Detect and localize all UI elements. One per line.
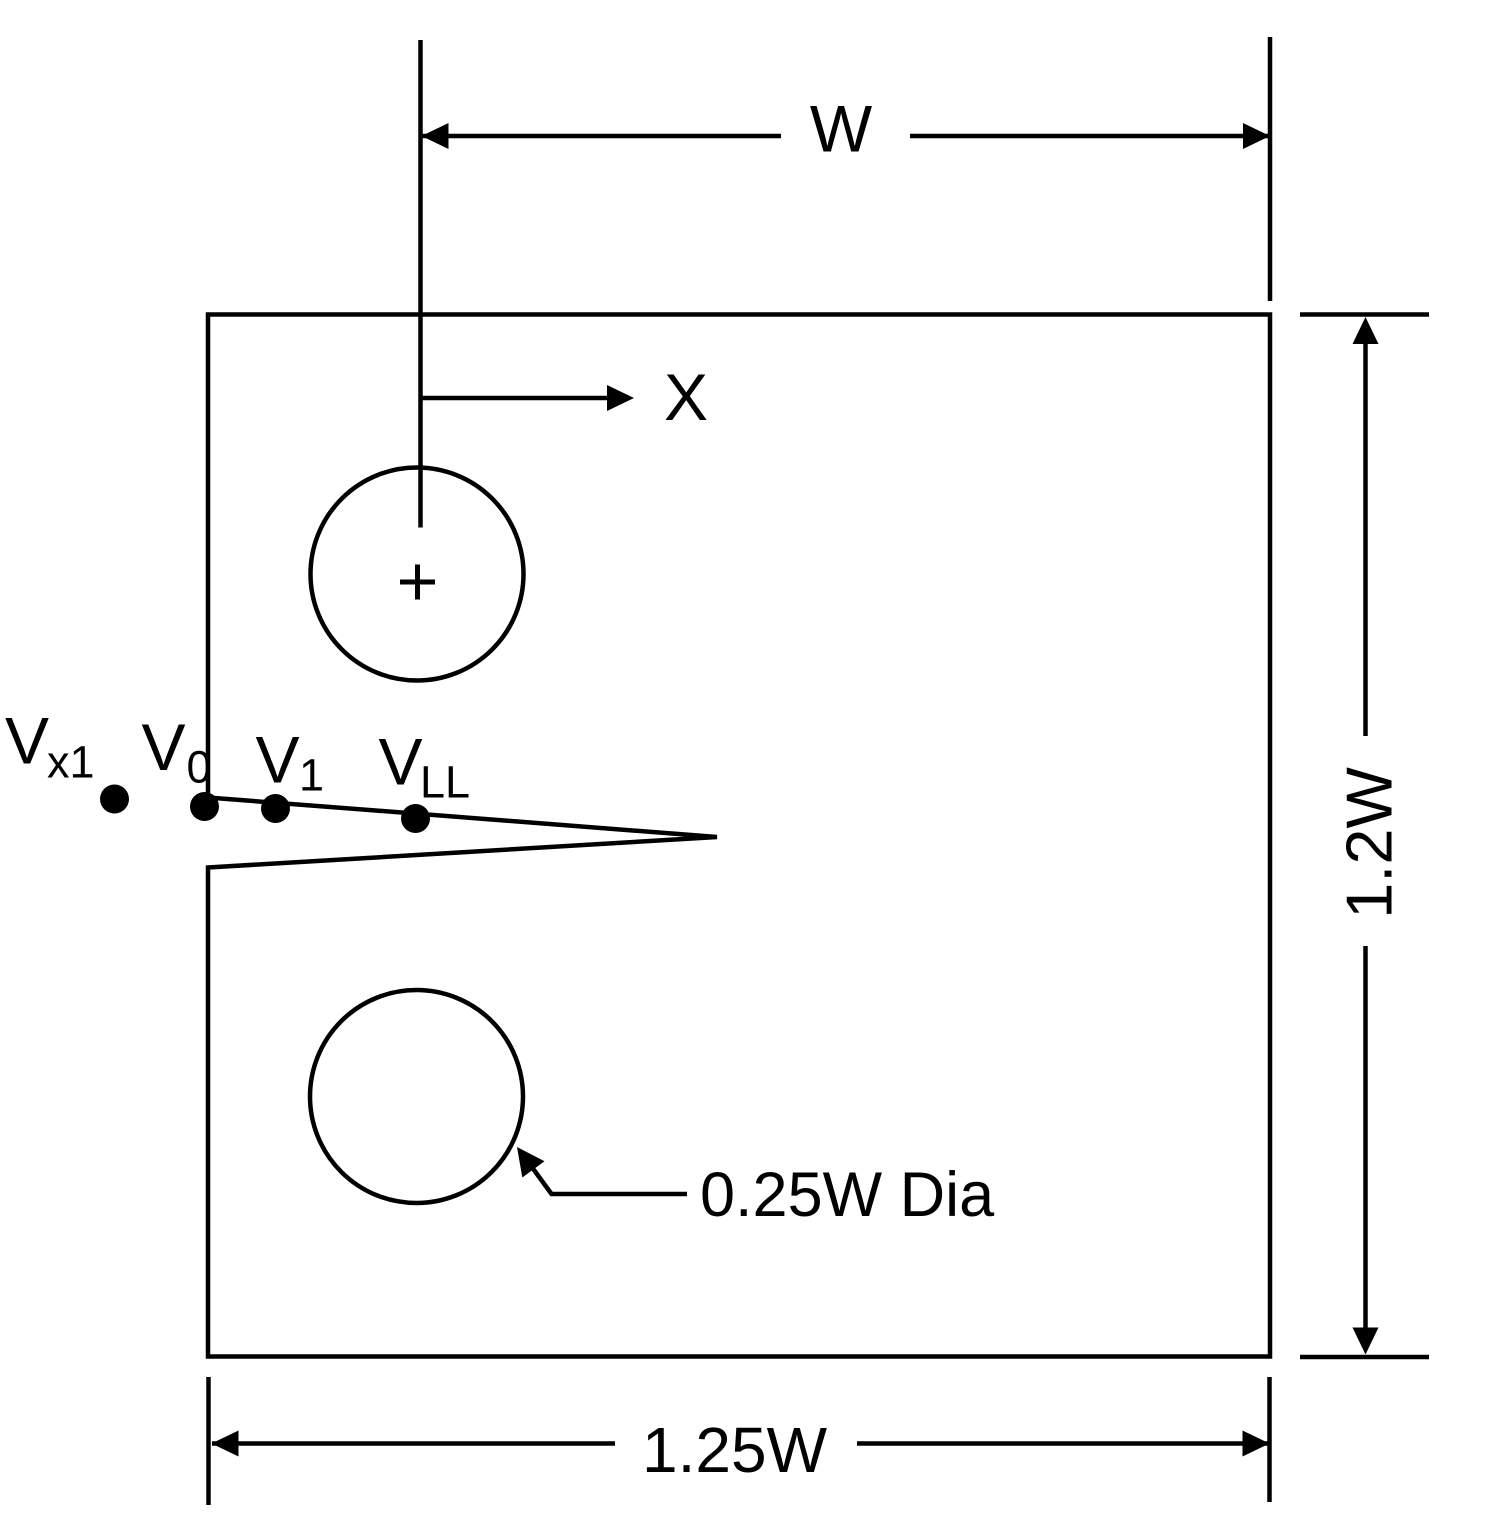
specimen outline with notch bbox=[208, 315, 1270, 1357]
top loading hole bbox=[311, 468, 524, 681]
svg-text:1.2W: 1.2W bbox=[1333, 767, 1406, 919]
svg-text:V: V bbox=[379, 725, 423, 799]
1.2W dimension line upper segment with up arrowhead bbox=[1363, 330, 1368, 736]
1.2W bottom tick bbox=[1300, 1355, 1429, 1360]
svg-text:V: V bbox=[142, 710, 186, 784]
svg-text:x1: x1 bbox=[47, 737, 95, 788]
measurement point Vx1 dot bbox=[100, 785, 129, 814]
measurement point VLL dot bbox=[401, 804, 430, 833]
X axis arrow bbox=[421, 396, 610, 401]
W dimension right extension line bbox=[1268, 37, 1273, 301]
1.25W dimension line left part with arrowhead bbox=[212, 1441, 615, 1446]
W dimension line left part with arrowhead bbox=[422, 134, 782, 139]
hole center mark + bbox=[400, 580, 435, 585]
vertical centerline bbox=[418, 40, 423, 528]
measurement point V0 dot bbox=[190, 792, 219, 821]
svg-text:V: V bbox=[5, 704, 49, 778]
1.2W dimension line lower segment with down arrowhead bbox=[1363, 946, 1368, 1341]
measurement point V1 dot bbox=[261, 794, 290, 823]
svg-text:X: X bbox=[664, 360, 708, 434]
svg-text:W: W bbox=[810, 92, 873, 166]
bottom-right extension line bbox=[1267, 1377, 1272, 1502]
bottom-left extension line bbox=[206, 1377, 211, 1505]
svg-text:LL: LL bbox=[420, 757, 470, 808]
svg-text:0: 0 bbox=[187, 742, 212, 793]
svg-text:0.25W Dia: 0.25W Dia bbox=[700, 1160, 995, 1230]
svg-text:1: 1 bbox=[299, 750, 324, 801]
1.2W top tick bbox=[1300, 312, 1429, 317]
bottom loading hole bbox=[310, 990, 523, 1203]
svg-text:1.25W: 1.25W bbox=[642, 1414, 828, 1486]
1.25W dimension line right part with arrowhead bbox=[857, 1441, 1268, 1446]
W dimension line right part with arrowhead bbox=[910, 134, 1269, 139]
hole leader arrow bbox=[530, 1165, 687, 1195]
svg-text:V: V bbox=[256, 723, 300, 797]
